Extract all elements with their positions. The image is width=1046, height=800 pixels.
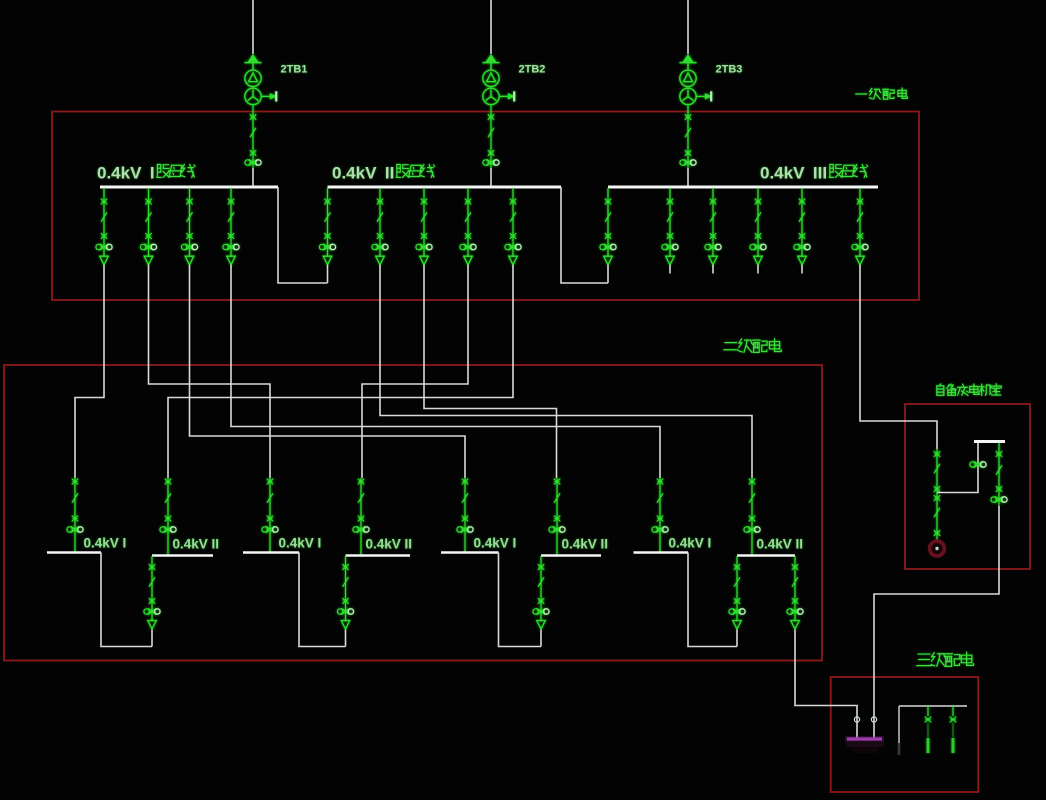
label 二级配电: [724, 339, 781, 353]
wire tie bus II to bus III: [561, 187, 608, 283]
wire bus III feeder stub 4: [801, 265, 803, 274]
wire bus II feeder4 to panel1 col2: [168, 265, 513, 478]
svg-text:0.4kV II: 0.4kV II: [562, 537, 609, 552]
wire panel4 tie loop: [688, 553, 737, 647]
wire bus II left riser: [327, 265, 329, 283]
bus III feeder breaker 4: [794, 188, 810, 265]
wire tie bus I to bus II: [278, 187, 328, 283]
changeover drawout contact: [970, 462, 986, 467]
busbar panel1 busbar II: [152, 554, 213, 556]
transformer 2TB1: [244, 54, 276, 105]
wire panel3 tie upper stub: [540, 630, 542, 647]
svg-text:2TB3: 2TB3: [716, 64, 743, 76]
wire bus III feeder stub 1: [669, 265, 671, 274]
svg-text:0.4kV I: 0.4kV I: [84, 536, 127, 551]
tertiary drop 1 lamp: [898, 742, 901, 755]
frame tertiary distribution box 三级配电: [831, 677, 979, 792]
label 段母线 (bus II): [396, 164, 434, 177]
transformer 2TB2: [482, 54, 514, 105]
panel4 incomer II breaker: [744, 478, 760, 556]
panel2 incomer II breaker: [353, 478, 369, 556]
bus I feeder breaker 1: [96, 188, 112, 265]
frame primary distribution box 一级配电: [52, 112, 919, 301]
panel3 incomer I breaker: [457, 478, 473, 553]
breaker chain under 2TB2: [483, 105, 499, 168]
tertiary purple busbar: [845, 739, 884, 753]
bus III generator feeder breaker: [852, 188, 868, 265]
bus II feeder breaker 4: [505, 188, 521, 265]
tie breaker on bus II left riser: [319, 188, 335, 265]
label 段母线 (bus III): [829, 164, 867, 177]
label 一级配电: [856, 88, 908, 99]
panel4 incomer I breaker: [652, 478, 668, 553]
busbar 0.4kV section I busbar: [100, 186, 278, 189]
busbar panel3 busbar II: [541, 554, 601, 556]
tertiary drop 3 breaker: [950, 706, 956, 753]
wire bus III feeder to generator room: [860, 265, 937, 449]
panel1 incomer II breaker: [160, 478, 176, 556]
busbar panel4 busbar I: [634, 551, 689, 553]
svg-text:0.4kV II: 0.4kV II: [757, 537, 804, 552]
svg-text:0.4kV I: 0.4kV I: [474, 536, 517, 551]
busbar panel2 busbar I: [243, 551, 299, 553]
wire bus I feeder2 to panel2 col1: [149, 265, 271, 478]
wire bus I feeder3 to panel3 col1: [190, 265, 466, 478]
wire bus III left riser: [607, 265, 609, 283]
panel4 tie breaker: [729, 556, 745, 629]
panel1 incomer I breaker: [67, 478, 83, 553]
bus I feeder breaker 4: [223, 188, 239, 265]
wire bus II feeder1 to panel4 col2: [380, 265, 752, 478]
wire generator tap to changeover: [937, 443, 978, 493]
wire tertiary drop 1: [898, 706, 900, 743]
bus I feeder breaker 2: [140, 188, 156, 265]
panel3 incomer II breaker: [549, 478, 565, 556]
busbar 0.4kV section III busbar: [608, 186, 878, 189]
bus III feeder breaker 1: [662, 188, 678, 265]
tie breaker on bus III left riser: [600, 188, 616, 265]
svg-text:0.4kV II: 0.4kV II: [173, 537, 220, 552]
wire 2TB2 to busbar: [490, 168, 492, 186]
panel4 outgoing breaker: [787, 556, 803, 629]
busbar generator room busbar: [974, 440, 1005, 443]
wire bus I feeder1 to panel1 col1: [75, 265, 104, 478]
bus III feeder breaker 3: [750, 188, 766, 265]
bus II feeder breaker 2: [416, 188, 432, 265]
label 三级配电: [917, 652, 974, 666]
svg-text:0.4kV III: 0.4kV III: [760, 164, 827, 183]
busbar panel2 busbar II: [346, 554, 411, 556]
wire incoming line 2TB1: [252, 0, 254, 54]
wire bus II feeder3 to panel2 col2: [362, 265, 468, 478]
panel2 incomer I breaker: [262, 478, 278, 553]
wire bus II feeder2 to panel3 col2: [424, 265, 557, 478]
bus III feeder breaker 2: [705, 188, 721, 265]
generator G: [930, 541, 945, 556]
breaker chain under 2TB1: [245, 105, 261, 168]
wire bus III feeder stub 3: [757, 265, 759, 274]
label 自备发电机室: [937, 384, 1002, 396]
svg-text:2TB2: 2TB2: [519, 64, 546, 76]
meter contact left drop: [854, 717, 859, 722]
wire bus I feeder4 to panel4 col1: [231, 265, 660, 478]
meter contact right drop: [871, 717, 876, 722]
generator room outgoing breaker: [991, 443, 1007, 505]
svg-text:0.4kV I: 0.4kV I: [669, 536, 712, 551]
label 段母线 (bus I): [157, 164, 195, 177]
tertiary white distribution busbar: [899, 705, 967, 707]
busbar panel1 busbar I: [47, 551, 101, 553]
svg-text:0.4kV I: 0.4kV I: [279, 536, 322, 551]
wire panel4 outgoing to tertiary box: [795, 630, 857, 738]
wire generator room outgoing wire: [874, 506, 999, 738]
bus I feeder breaker 3: [181, 188, 197, 265]
wire bus III feeder stub 2: [712, 265, 714, 274]
svg-text:0.4kV II: 0.4kV II: [332, 164, 394, 183]
panel1 tie breaker: [144, 556, 160, 629]
wire panel2 tie upper stub: [345, 630, 347, 647]
breaker chain under 2TB3: [680, 105, 696, 168]
busbar 0.4kV section II busbar: [328, 186, 562, 189]
wire panel4 tie upper stub: [736, 630, 738, 647]
wire incoming line 2TB2: [490, 0, 492, 54]
svg-text:2TB1: 2TB1: [281, 64, 308, 76]
svg-text:0.4kV II: 0.4kV II: [366, 537, 413, 552]
generator breaker chain: [934, 449, 940, 540]
tertiary drop 2 breaker: [925, 706, 931, 753]
wire 2TB3 to busbar: [687, 168, 689, 186]
wire panel3 tie loop: [499, 553, 542, 647]
wire panel1 tie upper stub: [151, 630, 153, 647]
wire panel1 tie loop: [101, 553, 152, 647]
busbar panel4 busbar II: [737, 554, 795, 556]
panel2 tie breaker: [337, 556, 353, 629]
wire panel2 tie loop: [299, 553, 346, 647]
transformer 2TB3: [679, 54, 711, 105]
bus II feeder breaker 3: [460, 188, 476, 265]
bus II feeder breaker 1: [372, 188, 388, 265]
svg-text:0.4kV I: 0.4kV I: [97, 164, 155, 183]
wire incoming line 2TB3: [687, 0, 689, 54]
busbar panel3 busbar I: [441, 551, 499, 553]
frame generator room box 自备发电机室: [905, 404, 1030, 569]
wire 2TB1 to busbar: [252, 168, 254, 186]
frame secondary distribution box 二级配电: [4, 365, 822, 661]
panel3 tie breaker: [533, 556, 549, 629]
